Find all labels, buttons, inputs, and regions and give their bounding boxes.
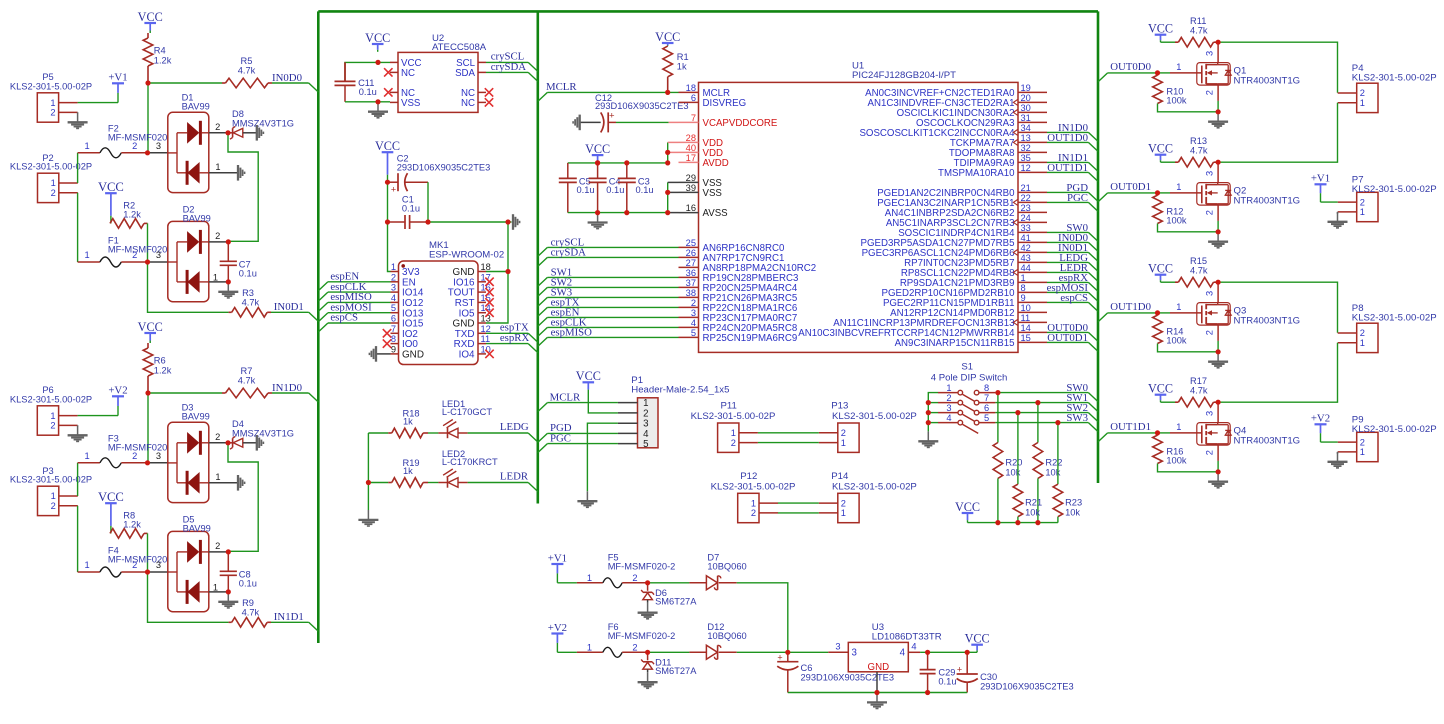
power +V1 at P7 bbox=[1311, 173, 1330, 202]
svg-text:293D106X9035C2TE3: 293D106X9035C2TE3 bbox=[980, 682, 1074, 692]
net label PGD (U1) bbox=[1066, 182, 1088, 194]
capacitor C2 293D106X9035C2TE3 (polarized) bbox=[388, 154, 491, 195]
wire S1 row3 to bus bbox=[995, 412, 1088, 414]
svg-text:1.2k: 1.2k bbox=[154, 55, 172, 65]
svg-text:1: 1 bbox=[587, 573, 592, 583]
svg-text:36: 36 bbox=[686, 268, 696, 278]
junction Q4 gate / R16 bbox=[1155, 430, 1160, 435]
wire VCC to R15 bbox=[1161, 281, 1176, 283]
wire D3 pin2 to D5 pin2 bbox=[228, 443, 258, 552]
transistor Q4 NTR4003NT1G bbox=[1197, 411, 1300, 455]
junction MK1 GND18 bbox=[505, 269, 510, 274]
wire U1 pin 33 to bus (SW0) bbox=[1047, 231, 1088, 233]
svg-text:1: 1 bbox=[1360, 98, 1365, 108]
power VCC at R2 bbox=[98, 180, 124, 223]
svg-text:0.1u: 0.1u bbox=[636, 185, 654, 195]
capacitor C11 0.1u bbox=[335, 62, 377, 101]
wire P2 pin2 down to fuse F1 bbox=[77, 193, 79, 262]
svg-text:4: 4 bbox=[391, 293, 396, 303]
net label SW2 (U1) bbox=[551, 277, 573, 289]
svg-text:3: 3 bbox=[156, 141, 161, 151]
junction S1 row2 bbox=[926, 400, 931, 405]
svg-text:KLS2-301-5.00-02P: KLS2-301-5.00-02P bbox=[832, 481, 917, 492]
junction C4 bottom bbox=[595, 210, 600, 215]
svg-text:8: 8 bbox=[391, 334, 396, 344]
svg-text:3: 3 bbox=[1205, 171, 1215, 176]
wire SW1 to U1 bbox=[547, 276, 678, 278]
svg-text:100k: 100k bbox=[1166, 96, 1187, 106]
wire LED1 to bus (LEDG) bbox=[468, 432, 529, 434]
svg-text:MMSZ4V3T1G: MMSZ4V3T1G bbox=[232, 118, 294, 128]
svg-text:NC: NC bbox=[401, 68, 415, 79]
net label IN0D0 (U1) bbox=[1058, 232, 1088, 244]
wire junction to R7 bbox=[148, 392, 222, 394]
bus exit OUT0D1 bbox=[1098, 193, 1108, 202]
ground at P5 pin 2 bbox=[68, 112, 88, 128]
svg-text:3: 3 bbox=[691, 308, 696, 318]
wire U1 pin 8 to bus (espMOSI) bbox=[1047, 291, 1088, 293]
diode D5 BAV99 bbox=[168, 514, 211, 611]
wire P11 pin2 to P13 pin1 bbox=[758, 442, 819, 444]
svg-text:MCLR: MCLR bbox=[550, 391, 581, 403]
svg-text:+: + bbox=[777, 652, 782, 662]
svg-text:GND: GND bbox=[868, 662, 890, 673]
switch S1 pole 3-6 bbox=[938, 403, 995, 424]
resistor R14 100k bbox=[1153, 315, 1218, 352]
svg-text:MMSZ4V3T1G: MMSZ4V3T1G bbox=[232, 428, 294, 438]
junction U3 GND bbox=[874, 690, 879, 695]
svg-text:C30: C30 bbox=[980, 672, 997, 682]
net label crySCL (U1) bbox=[551, 237, 585, 249]
svg-text:+: + bbox=[609, 110, 615, 121]
bus A (left inputs) bbox=[317, 11, 320, 643]
wire VCC to P1 pin2 bbox=[588, 392, 618, 413]
resistor R13 4.7k bbox=[1175, 136, 1218, 167]
IC U3 LD1086DT33TR bbox=[848, 622, 941, 673]
svg-text:5: 5 bbox=[391, 303, 396, 313]
svg-text:RP25CN19PMA6RC9: RP25CN19PMA6RC9 bbox=[703, 333, 798, 344]
svg-text:3: 3 bbox=[156, 560, 161, 570]
svg-text:1: 1 bbox=[215, 472, 220, 482]
resistor R3 4.7k bbox=[229, 288, 271, 317]
svg-text:1: 1 bbox=[213, 272, 218, 282]
svg-text:+V2: +V2 bbox=[108, 385, 127, 397]
wire S1 row3 bbox=[928, 412, 938, 414]
wire P11 pin1 to P13 pin2 bbox=[758, 432, 819, 434]
svg-text:2: 2 bbox=[1360, 88, 1365, 98]
fuse F1 MF-MSMF020 bbox=[78, 236, 168, 267]
resistor R22 10k bbox=[1033, 403, 1062, 523]
bus entry PGD (P1) bbox=[538, 433, 548, 442]
net label IN0D0 bbox=[272, 72, 302, 84]
ground at C12 bbox=[573, 115, 580, 131]
svg-text:3: 3 bbox=[946, 403, 951, 413]
svg-text:39: 39 bbox=[686, 183, 696, 193]
svg-text:6: 6 bbox=[391, 314, 396, 324]
svg-text:R7: R7 bbox=[241, 366, 253, 376]
capacitor C29 0.1u bbox=[920, 652, 957, 692]
svg-text:40: 40 bbox=[686, 143, 696, 153]
svg-text:Header-Male-2.54_1x5: Header-Male-2.54_1x5 bbox=[631, 384, 729, 395]
wire OUT0D0 to Q1 gate bbox=[1108, 72, 1158, 74]
svg-text:3: 3 bbox=[156, 250, 161, 260]
ground at D1 pin 1 bbox=[238, 165, 245, 181]
svg-text:1: 1 bbox=[841, 508, 846, 518]
svg-text:SM6T27A: SM6T27A bbox=[655, 666, 697, 676]
svg-text:13: 13 bbox=[481, 314, 491, 324]
bus entry MCLR (U1) bbox=[538, 92, 548, 101]
net label MCLR (P1) bbox=[550, 391, 581, 403]
svg-text:4: 4 bbox=[946, 413, 951, 423]
Q4 drain wire bbox=[1217, 402, 1219, 422]
svg-text:19: 19 bbox=[1021, 83, 1031, 93]
wire LED ground rail bbox=[367, 433, 369, 510]
resistor R19 1k bbox=[368, 458, 428, 487]
switch S1 4 Pole DIP Switch label bbox=[931, 361, 1008, 383]
wire U1 pin 14 to bus (OUT0D0) bbox=[1047, 331, 1088, 333]
wire S1 row4 to bus bbox=[995, 422, 1088, 424]
junction SW2/R21 bbox=[1015, 410, 1020, 415]
bus entry SW3 (U1) bbox=[538, 297, 548, 306]
junction C29 top bbox=[925, 650, 930, 655]
net label LEDR bbox=[500, 471, 529, 483]
Q1 source wire bbox=[1217, 85, 1219, 112]
svg-text:43: 43 bbox=[1021, 253, 1031, 263]
svg-text:espRX: espRX bbox=[500, 332, 530, 344]
svg-text:2: 2 bbox=[946, 393, 951, 403]
junction C6 top bbox=[785, 650, 790, 655]
cap rail top bbox=[568, 162, 668, 164]
bus entry IN0D0 bbox=[309, 83, 319, 92]
wire R18 to LED1 bbox=[428, 432, 438, 434]
resistor R5 4.7k bbox=[222, 56, 272, 88]
net label IN1D1 (U1) bbox=[1058, 152, 1088, 164]
svg-text:1: 1 bbox=[85, 250, 90, 260]
svg-text:KLS2-301-5.00-02P: KLS2-301-5.00-02P bbox=[10, 82, 92, 92]
svg-text:OUT1D1: OUT1D1 bbox=[1110, 421, 1151, 433]
net label espRX (U1) bbox=[1059, 272, 1089, 284]
junction gnd net bbox=[505, 219, 510, 224]
svg-text:P6: P6 bbox=[42, 385, 53, 395]
bus entry espTX (U1) bbox=[538, 307, 548, 316]
connector P8 KLS2-301-5.00-02P bbox=[1338, 303, 1437, 353]
bus entry IN0D1 bbox=[309, 312, 319, 321]
junction C3 bottom bbox=[624, 210, 629, 215]
net label OUT0D1 (Q2) bbox=[1110, 181, 1151, 193]
ground at P9 pin1 bbox=[1328, 452, 1348, 468]
P1 pins bbox=[618, 398, 649, 450]
Q1 drain wire bbox=[1217, 42, 1219, 62]
VSS interconnect bbox=[668, 182, 679, 212]
pin 3 stub to D3 bbox=[148, 451, 168, 463]
svg-text:MF-MSMF020-2: MF-MSMF020-2 bbox=[608, 631, 676, 641]
svg-text:L-C170KRCT: L-C170KRCT bbox=[442, 457, 498, 467]
power VCC at C2 bbox=[375, 139, 400, 182]
bus exit OUT0D0 bbox=[1098, 73, 1108, 82]
junction S1 row4 bbox=[926, 420, 931, 425]
junction fuse F4 / D5 pin3 bbox=[145, 569, 150, 574]
ground at D11 bbox=[638, 672, 658, 688]
svg-text:OUT1D0: OUT1D0 bbox=[1110, 301, 1151, 313]
svg-text:293D106X9035C2TE3: 293D106X9035C2TE3 bbox=[595, 101, 689, 111]
zener D4 MMSZ4V3T1G bbox=[228, 419, 294, 449]
svg-text:VCC: VCC bbox=[365, 31, 390, 45]
connector P7 KLS2-301-5.00-02P bbox=[1338, 174, 1437, 221]
svg-text:0.1u: 0.1u bbox=[606, 185, 624, 195]
wire P2 pin1 up to fuse F2 bbox=[77, 153, 79, 183]
svg-text:OUT0D0: OUT0D0 bbox=[1110, 61, 1151, 73]
junction D3 pin2 / zener D4 bbox=[225, 440, 230, 445]
fuse F2 MF-MSMF020 bbox=[78, 123, 168, 158]
power +V1 bbox=[108, 72, 127, 103]
zener D8 MMSZ4V3T1G bbox=[228, 109, 294, 139]
junction VSS 39 bbox=[665, 190, 670, 195]
junction VCC cap rail bbox=[595, 160, 600, 165]
junction U2 VSS bbox=[375, 99, 380, 104]
svg-text:+: + bbox=[391, 185, 396, 195]
bus entry IN0D0 (U1) bbox=[1088, 242, 1098, 251]
svg-text:MF-MSMF020-2: MF-MSMF020-2 bbox=[608, 562, 676, 572]
transistor Q2 NTR4003NT1G bbox=[1197, 171, 1300, 215]
svg-text:0.1u: 0.1u bbox=[239, 578, 257, 588]
svg-text:LEDG: LEDG bbox=[500, 421, 529, 433]
net label espMOSI (U1) bbox=[1047, 282, 1089, 294]
svg-text:ESP-WROOM-02: ESP-WROOM-02 bbox=[429, 249, 504, 260]
net label espTX (U1) bbox=[551, 297, 580, 309]
U1 right pins bbox=[798, 83, 1047, 349]
VDD interconnect bbox=[668, 142, 679, 163]
TVS diode D6 SM6T27A bbox=[641, 583, 697, 607]
bus entry IN1D1 bbox=[309, 622, 319, 631]
wire Q1 drain to P4 pin2 bbox=[1218, 42, 1337, 93]
svg-text:10k: 10k bbox=[1065, 507, 1080, 517]
junction Q1 drain bbox=[1216, 40, 1221, 45]
svg-text:1: 1 bbox=[85, 451, 90, 461]
svg-text:KLS2-301-5.00-02P: KLS2-301-5.00-02P bbox=[1352, 424, 1437, 435]
wire U1 pin 15 to bus (OUT0D1) bbox=[1047, 341, 1088, 343]
junction Q3 source bbox=[1216, 349, 1221, 354]
svg-text:VSS: VSS bbox=[401, 98, 421, 109]
svg-text:ATECC508A: ATECC508A bbox=[432, 42, 487, 53]
D5 pin 1 stub bbox=[209, 582, 229, 592]
fuse F5 MF-MSMF020-2 bbox=[557, 553, 675, 588]
ground at zener D8 bbox=[257, 125, 264, 141]
switch S1 pole 2-7 bbox=[938, 393, 995, 414]
wire P12 pin1 to P14 pin2 bbox=[778, 502, 819, 504]
svg-text:VCC: VCC bbox=[585, 142, 610, 156]
capacitor C6 293D106X9035C2TE3 (polarized) bbox=[777, 652, 894, 692]
svg-text:15: 15 bbox=[1021, 333, 1031, 343]
net label IN1D0 (U1) bbox=[1058, 122, 1088, 134]
svg-text:VCC: VCC bbox=[1148, 142, 1173, 156]
svg-text:2: 2 bbox=[215, 432, 220, 442]
wire D1 pin2 to D2 pin2 bbox=[228, 133, 258, 242]
resistor R21 10k bbox=[1013, 413, 1042, 523]
wire +V1 to P7 pin2 bbox=[1321, 201, 1338, 203]
wire R4 junction down to fuse F2 node bbox=[147, 83, 149, 153]
junction Q2 source bbox=[1216, 229, 1221, 234]
svg-text:1: 1 bbox=[841, 438, 846, 448]
transistor Q1 NTR4003NT1G bbox=[1197, 51, 1300, 95]
svg-text:28: 28 bbox=[686, 133, 696, 143]
wire P8 pin1 to Q4 drain bbox=[1218, 343, 1337, 402]
svg-text:KLS2-301-5.00-02P: KLS2-301-5.00-02P bbox=[10, 162, 92, 172]
svg-text:13: 13 bbox=[1021, 133, 1031, 143]
net label SW3 (U1) bbox=[551, 287, 573, 299]
svg-text:NTR4003NT1G: NTR4003NT1G bbox=[1234, 316, 1301, 327]
svg-text:6: 6 bbox=[984, 403, 989, 413]
connector P6 KLS2-301-5.00-02P bbox=[10, 385, 92, 435]
svg-text:KLS2-301-5.00-02P: KLS2-301-5.00-02P bbox=[10, 395, 92, 405]
svg-text:0.1u: 0.1u bbox=[577, 185, 595, 195]
svg-text:2: 2 bbox=[1360, 197, 1365, 207]
svg-text:PGC: PGC bbox=[550, 432, 571, 444]
svg-text:35: 35 bbox=[1021, 153, 1031, 163]
resistor R1 1k bbox=[663, 46, 689, 92]
svg-text:crySDA: crySDA bbox=[551, 247, 587, 259]
wire SW2 to U1 bbox=[547, 286, 678, 288]
pin 3 stub to D5 bbox=[148, 560, 168, 572]
svg-text:4.7k: 4.7k bbox=[238, 375, 256, 385]
svg-text:P11: P11 bbox=[721, 401, 737, 412]
svg-text:R6: R6 bbox=[154, 356, 166, 366]
svg-text:R4: R4 bbox=[154, 46, 166, 56]
bus entry OUT1D0 (U1) bbox=[1088, 142, 1098, 151]
net label PGC (P1) bbox=[550, 432, 571, 444]
wire D7 to VCC rail bbox=[737, 583, 788, 653]
U3 pin 4 bbox=[900, 642, 920, 659]
svg-text:7: 7 bbox=[691, 113, 696, 123]
wire espTX to U1 bbox=[547, 306, 678, 308]
resistor R23 10k bbox=[1053, 423, 1082, 523]
svg-text:AVSS: AVSS bbox=[703, 208, 729, 219]
svg-text:34: 34 bbox=[1021, 123, 1031, 133]
svg-text:espMISO: espMISO bbox=[551, 327, 593, 339]
svg-text:OUT0D1: OUT0D1 bbox=[1047, 332, 1088, 344]
junction Q4 drain bbox=[1216, 400, 1221, 405]
svg-text:NTR4003NT1G: NTR4003NT1G bbox=[1234, 196, 1301, 207]
svg-text:+V1: +V1 bbox=[548, 552, 567, 564]
svg-text:24: 24 bbox=[1021, 213, 1031, 223]
ground at D6 bbox=[638, 603, 658, 619]
svg-text:16: 16 bbox=[686, 203, 696, 213]
wire F4 node down to R9 bbox=[148, 572, 229, 622]
IC U1 PIC24FJ128GB204-I/PT bbox=[699, 61, 1019, 353]
net label espEN bbox=[330, 271, 359, 283]
net label IN0D1 bbox=[274, 301, 304, 313]
power VCC at R1 bbox=[655, 30, 680, 46]
wire U1 pin 44 to bus (LEDR) bbox=[1047, 271, 1088, 273]
diode LED1 L-C170GCT bbox=[438, 399, 492, 438]
svg-text:44: 44 bbox=[1021, 263, 1031, 273]
pin 3 stub to D2 bbox=[148, 250, 168, 262]
connector P2 KLS2-301-5.00-02P bbox=[10, 153, 92, 203]
wire SW3 to U1 bbox=[547, 296, 678, 298]
svg-text:1: 1 bbox=[1021, 273, 1026, 283]
svg-text:2: 2 bbox=[51, 188, 56, 198]
svg-text:P5: P5 bbox=[42, 72, 53, 82]
svg-text:KLS2-301-5.00-02P: KLS2-301-5.00-02P bbox=[1352, 184, 1437, 195]
bus entry crySCL (U1) bbox=[538, 247, 548, 256]
connector P1 Header-Male-2.54_1x5 bbox=[631, 375, 729, 448]
svg-text:1: 1 bbox=[50, 411, 55, 421]
wire VCC node down to MK1 3V3 bbox=[388, 222, 391, 272]
svg-text:4 Pole DIP Switch: 4 Pole DIP Switch bbox=[931, 373, 1008, 384]
power +V2 bbox=[548, 622, 567, 652]
svg-text:KLS2-301-5.00-02P: KLS2-301-5.00-02P bbox=[832, 411, 917, 422]
diode D3 BAV99 bbox=[168, 402, 210, 502]
wire espRX MK1 pin11 bbox=[486, 343, 528, 345]
svg-text:1: 1 bbox=[213, 582, 218, 592]
net label OUT1D0 (U1) bbox=[1047, 132, 1088, 144]
bus entry OUT1D1 (U1) bbox=[1088, 172, 1098, 181]
net label OUT1D1 (U1) bbox=[1047, 162, 1088, 174]
svg-text:4: 4 bbox=[911, 642, 916, 652]
bus entry PGC (U1) bbox=[1088, 202, 1098, 211]
D1 pin 2 stub bbox=[209, 122, 228, 133]
bus entry SW1 bbox=[1088, 403, 1098, 412]
U1 left pins bbox=[679, 83, 817, 344]
net label OUT0D0 (U1) bbox=[1047, 322, 1088, 334]
net label espEN (U1) bbox=[551, 307, 580, 319]
wire espEN to MK1 bbox=[328, 281, 391, 283]
junction C4 top bbox=[595, 160, 600, 165]
ground at S1 bbox=[918, 431, 938, 447]
resistor R15 4.7k bbox=[1175, 256, 1218, 287]
net label LEDG (U1) bbox=[1059, 252, 1088, 264]
U3 pin 3 bbox=[828, 642, 857, 659]
net label crySDA (U1) bbox=[551, 247, 587, 259]
fuse F3 MF-MSMF020 bbox=[78, 433, 168, 468]
net label IN0D1 (U1) bbox=[1058, 242, 1088, 254]
wire U1 pin 1 to bus (espRX) bbox=[1047, 281, 1088, 283]
bus entry SW2 bbox=[1088, 413, 1098, 422]
wire C2 right to C1 right bbox=[427, 182, 429, 222]
svg-text:1: 1 bbox=[1176, 422, 1181, 432]
svg-text:+V2: +V2 bbox=[1311, 413, 1330, 425]
resistor R20 10k bbox=[993, 393, 1022, 523]
svg-text:31: 31 bbox=[1021, 113, 1031, 123]
svg-text:3: 3 bbox=[835, 642, 840, 652]
bus exit OUT1D1 bbox=[1098, 433, 1108, 442]
ground at P1 pin 3 bbox=[577, 491, 597, 507]
svg-text:IO4: IO4 bbox=[459, 350, 475, 361]
junction fuse F1 / D2 pin3 bbox=[145, 259, 150, 264]
bus entry SW0 bbox=[1088, 393, 1098, 402]
net label PGC (U1) bbox=[1067, 192, 1088, 204]
diode D12 10BQ060 bbox=[648, 622, 747, 659]
svg-text:2: 2 bbox=[215, 231, 220, 241]
svg-text:espCS: espCS bbox=[330, 312, 358, 324]
svg-text:2: 2 bbox=[1205, 210, 1215, 215]
wire VCC to R17 bbox=[1161, 401, 1176, 403]
bus entry espEN bbox=[318, 282, 328, 291]
junction D5 pin2 / cap C8 bbox=[226, 549, 231, 554]
svg-text:18: 18 bbox=[686, 83, 696, 93]
junction D1 pin2 / zener D8 bbox=[225, 130, 230, 135]
diode D2 BAV99 bbox=[168, 204, 211, 301]
resistor R9 4.7k bbox=[229, 598, 271, 627]
svg-text:PIC24FJ128GB204-I/PT: PIC24FJ128GB204-I/PT bbox=[852, 70, 956, 81]
capacitor C8 0.1u bbox=[220, 552, 257, 593]
D3 pin 1 stub to ground bbox=[209, 472, 237, 483]
svg-text:1.2k: 1.2k bbox=[123, 210, 141, 220]
svg-text:4.7k: 4.7k bbox=[242, 607, 260, 617]
junction Q4 source bbox=[1216, 469, 1221, 474]
net label espMOSI bbox=[330, 301, 372, 313]
svg-text:+V2: +V2 bbox=[548, 622, 567, 634]
wire espTX MK1 pin12 bbox=[486, 332, 528, 334]
